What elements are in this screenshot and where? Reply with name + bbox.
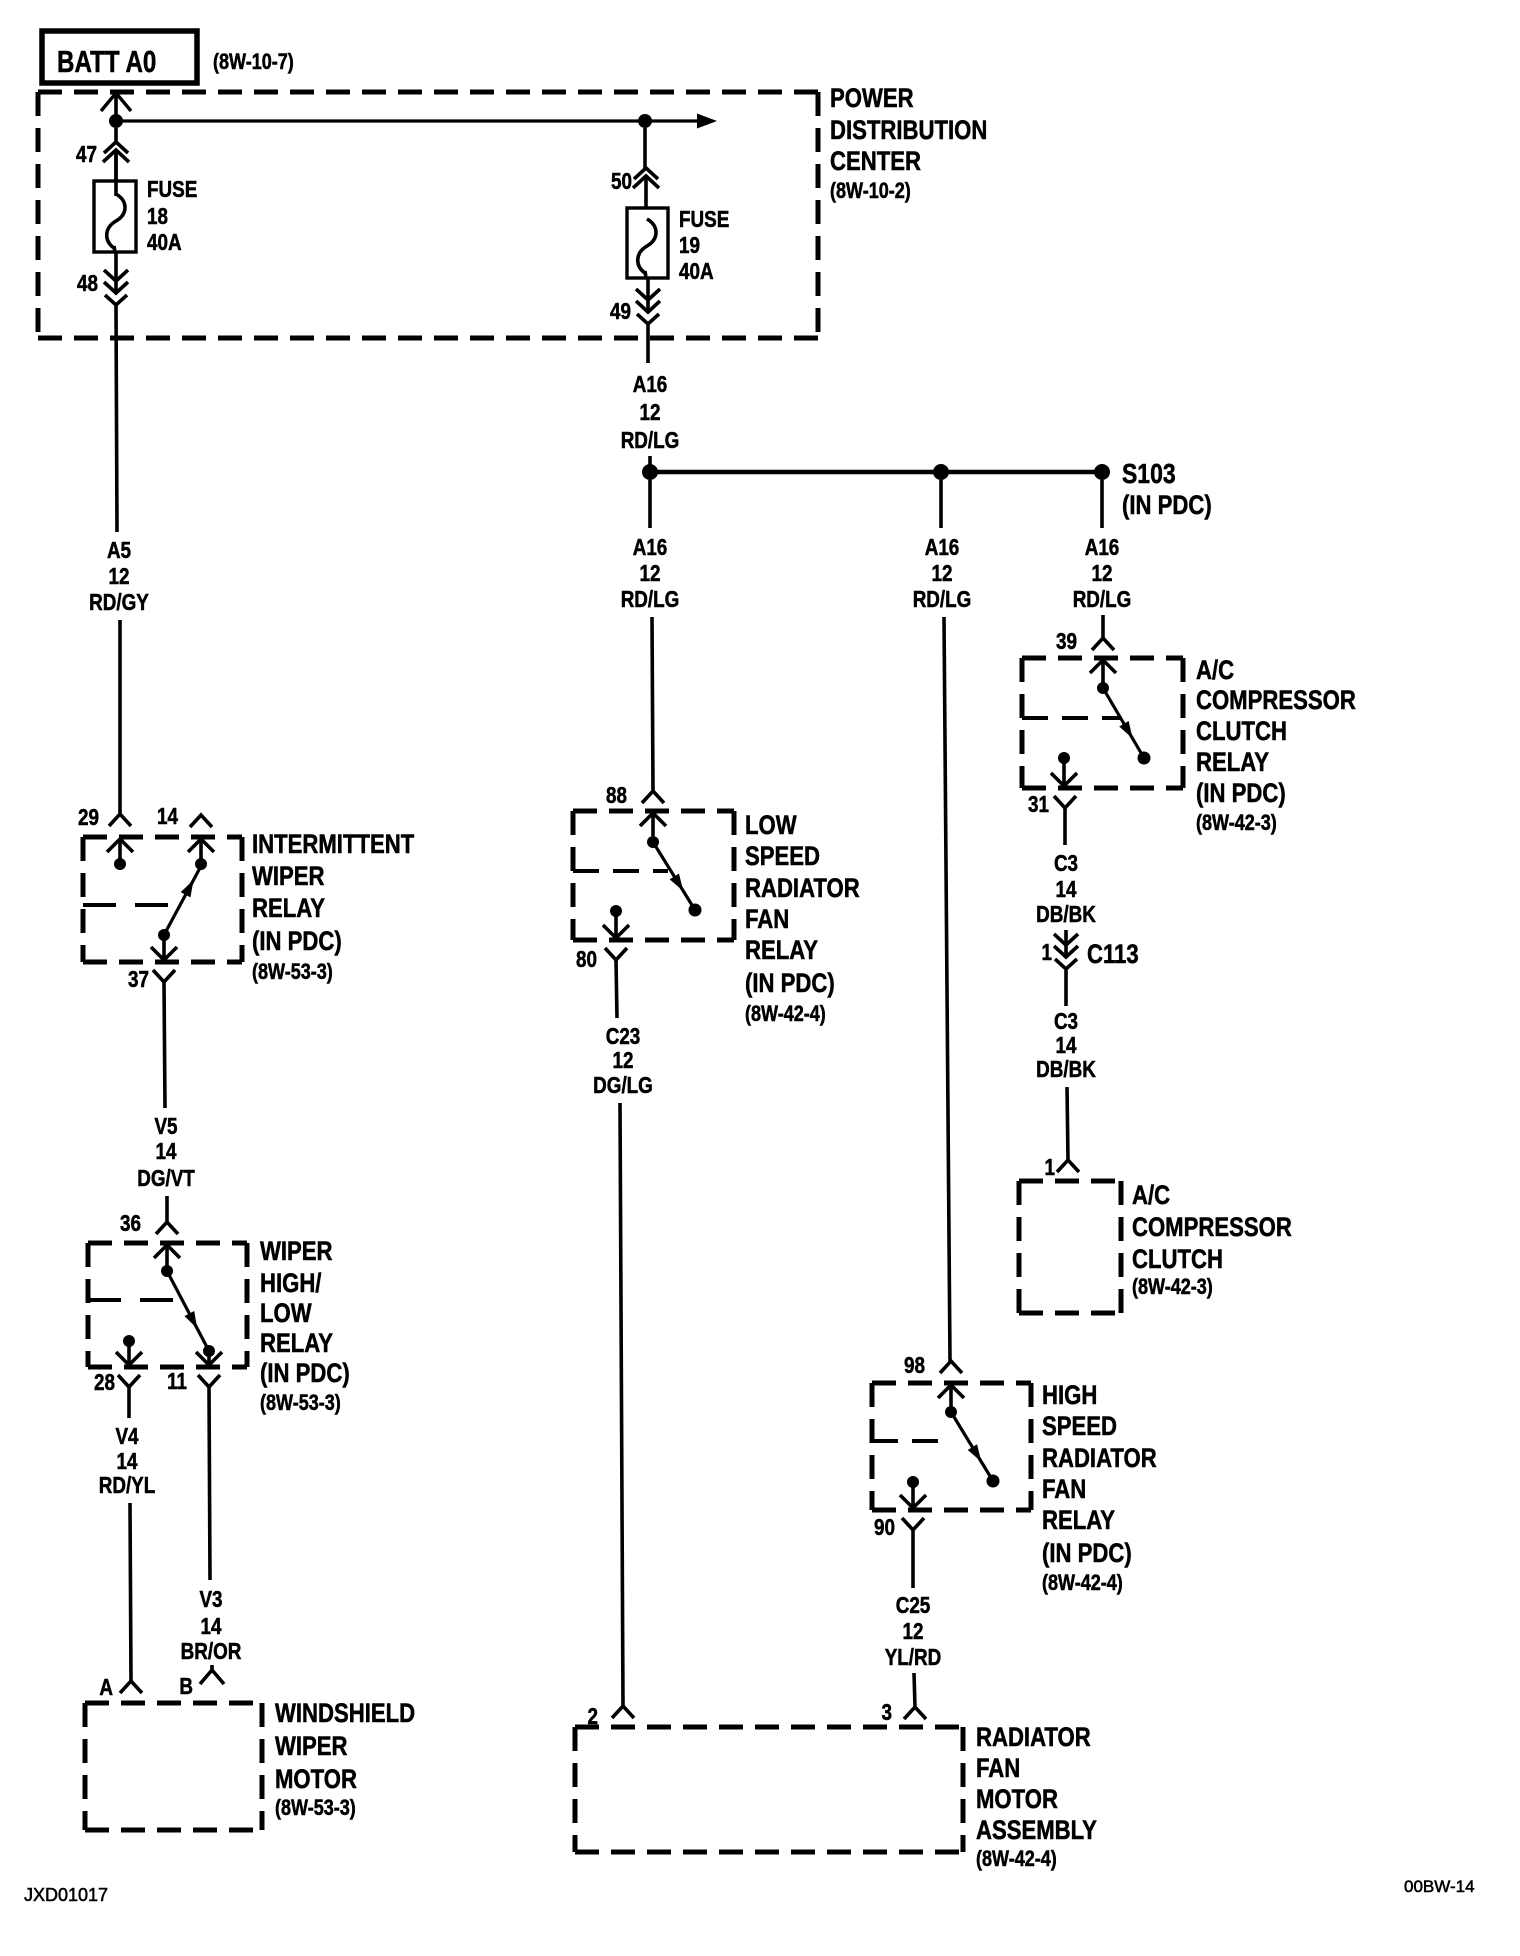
svg-text:RD/LG: RD/LG [621, 587, 680, 612]
junction dot left [109, 114, 123, 128]
bus arrow continuation [645, 119, 700, 122]
splice dot left [642, 464, 658, 480]
relay coil divider dashes [88, 1298, 175, 1302]
low speed radiator fan relay box [573, 809, 734, 814]
svg-text:88: 88 [606, 783, 627, 808]
svg-text:31: 31 [1028, 792, 1049, 817]
radiator fan motor assembly box [575, 1725, 963, 1730]
relay pin 39 contact arrow [1090, 660, 1116, 673]
col2 wire to relay [652, 617, 653, 791]
relay pin 39 fork [1092, 638, 1114, 650]
svg-text:12: 12 [109, 564, 130, 589]
svg-text:WINDSHIELD: WINDSHIELD [275, 1699, 415, 1729]
relay coil divider dashes [573, 869, 668, 873]
a/c compressor clutch box [1019, 1179, 1121, 1184]
motor pin A fork [120, 1681, 142, 1693]
relay pin 14 chevron [190, 815, 212, 827]
wire from junction up into BATT A0 with arrowhead [114, 96, 118, 121]
svg-text:00BW-14: 00BW-14 [1404, 1877, 1475, 1896]
svg-text:CENTER: CENTER [830, 147, 921, 177]
wire C25 upper segment [911, 1530, 915, 1588]
svg-text:49: 49 [610, 299, 631, 324]
wire V4 upper segment [127, 1387, 131, 1418]
relay common contact dot [610, 905, 622, 917]
svg-text:SPEED: SPEED [745, 842, 820, 872]
wire to a/c compressor clutch [1067, 1087, 1068, 1160]
svg-text:40A: 40A [147, 230, 182, 255]
svg-text:19: 19 [679, 233, 700, 258]
svg-text:14: 14 [156, 1139, 177, 1164]
svg-text:RD/LG: RD/LG [1073, 587, 1132, 612]
wire V3 upper segment [209, 1387, 210, 1580]
relay NO contact dot [987, 1475, 1000, 1488]
relay switch arm with arrowhead [653, 842, 695, 910]
svg-text:A16: A16 [925, 535, 960, 560]
svg-text:12: 12 [903, 1619, 924, 1644]
wire A5 upper segment [116, 305, 117, 532]
relay pin 37 fork [153, 970, 175, 982]
svg-text:RADIATOR: RADIATOR [745, 874, 860, 904]
svg-text:A16: A16 [633, 372, 668, 397]
relay common contact dot pin 28 [123, 1335, 135, 1347]
splice dot S103 [1094, 464, 1110, 480]
svg-text:12: 12 [640, 561, 661, 586]
svg-text:WIPER: WIPER [260, 1237, 333, 1267]
svg-text:S103: S103 [1122, 459, 1176, 490]
relay common pin arrow down [1062, 758, 1066, 786]
relay common contact dot [158, 929, 170, 941]
svg-text:14: 14 [201, 1614, 222, 1639]
relay pin 98 fork [940, 1361, 962, 1373]
long wire to radiator fan motor pin 2 [620, 1103, 623, 1706]
relay common contact dot [1058, 752, 1070, 764]
wire V4 lower segment [130, 1503, 131, 1681]
wire to splice, crossing PDC edge [646, 324, 650, 363]
svg-text:V4: V4 [115, 1424, 138, 1449]
relay switch arm with arrowhead [1103, 688, 1144, 758]
svg-text:A: A [99, 1675, 113, 1700]
relay switch arm with arrowhead [951, 1412, 993, 1481]
relay common contact dot [907, 1476, 919, 1488]
svg-text:3: 3 [882, 1700, 892, 1725]
svg-text:C25: C25 [896, 1593, 931, 1618]
intermittent wiper relay box [83, 835, 242, 840]
svg-text:(8W-10-2): (8W-10-2) [830, 179, 911, 203]
svg-text:(8W-42-3): (8W-42-3) [1132, 1275, 1213, 1299]
svg-text:1: 1 [1042, 940, 1053, 965]
relay pin 28 arrow down [127, 1341, 131, 1365]
svg-text:V5: V5 [154, 1114, 177, 1139]
svg-text:RADIATOR: RADIATOR [1042, 1444, 1157, 1474]
relay NO contact dot [689, 904, 702, 917]
svg-text:29: 29 [78, 805, 99, 830]
svg-text:YL/RD: YL/RD [885, 1645, 942, 1670]
svg-text:ASSEMBLY: ASSEMBLY [976, 1816, 1097, 1846]
svg-text:14: 14 [1056, 1033, 1077, 1058]
svg-text:(8W-53-3): (8W-53-3) [260, 1391, 341, 1415]
relay pin 80 fork [605, 948, 627, 960]
svg-text:90: 90 [874, 1515, 895, 1540]
svg-text:DB/BK: DB/BK [1036, 902, 1096, 927]
svg-text:11: 11 [167, 1369, 187, 1394]
svg-text:C3: C3 [1054, 851, 1078, 876]
wiper high/low relay box [88, 1241, 247, 1246]
relay coil divider dashes [872, 1439, 952, 1443]
svg-text:12: 12 [1092, 561, 1113, 586]
svg-text:A16: A16 [1085, 535, 1120, 560]
svg-text:(IN PDC): (IN PDC) [1196, 779, 1286, 809]
fuse 19 40A [627, 208, 668, 278]
svg-text:BATT A0: BATT A0 [57, 44, 156, 79]
svg-text:HIGH: HIGH [1042, 1381, 1097, 1411]
svg-text:MOTOR: MOTOR [976, 1785, 1058, 1815]
svg-text:FUSE: FUSE [147, 177, 197, 202]
svg-text:39: 39 [1056, 629, 1077, 654]
svg-text:47: 47 [76, 142, 97, 167]
svg-text:RD/LG: RD/LG [913, 587, 972, 612]
svg-text:18: 18 [147, 204, 168, 229]
relay NO contact dot pin 11 [203, 1345, 215, 1357]
svg-text:(IN PDC): (IN PDC) [252, 927, 342, 957]
clutch pin 1 fork [1057, 1160, 1079, 1172]
svg-text:(IN PDC): (IN PDC) [745, 969, 835, 999]
svg-text:SPEED: SPEED [1042, 1412, 1117, 1442]
BATT A0 feed terminal box [42, 31, 197, 83]
svg-text:RELAY: RELAY [260, 1329, 333, 1359]
svg-text:14: 14 [157, 804, 178, 829]
svg-text:(IN PDC): (IN PDC) [1122, 491, 1212, 521]
svg-text:LOW: LOW [745, 811, 797, 841]
splice dot middle [933, 464, 949, 480]
svg-text:WIPER: WIPER [252, 862, 325, 892]
relay pin 29 fork [109, 814, 131, 826]
wire to radiator fan motor pin 3 [914, 1673, 915, 1707]
relay pin 90 fork [902, 1518, 924, 1530]
wire below C113 [1064, 969, 1068, 1006]
connector C113 [1064, 930, 1068, 957]
svg-text:RD/GY: RD/GY [89, 590, 149, 615]
relay switch arm with arrowhead [164, 866, 201, 935]
svg-text:DG/LG: DG/LG [593, 1073, 653, 1098]
svg-text:(IN PDC): (IN PDC) [260, 1359, 350, 1389]
svg-text:A/C: A/C [1132, 1181, 1170, 1211]
svg-text:POWER: POWER [830, 84, 914, 114]
relay pin 11 arrow down [207, 1351, 211, 1365]
svg-text:(8W-53-3): (8W-53-3) [252, 960, 333, 984]
svg-text:50: 50 [611, 169, 632, 194]
wire V3 lower segment [210, 1665, 214, 1670]
long col3 wire to relay [944, 617, 950, 1361]
windshield wiper motor box [85, 1701, 262, 1706]
relay pin 31 fork [1054, 796, 1076, 808]
svg-text:RELAY: RELAY [1196, 748, 1269, 778]
connector 50 (PDC cavity) [643, 128, 647, 168]
svg-text:RD/YL: RD/YL [99, 1473, 156, 1498]
relay coil divider dashes [1022, 716, 1120, 720]
relay pin 36 contact arrow [154, 1245, 180, 1258]
relay pin 88 contact arrow [640, 813, 666, 826]
wire V5 upper segment [164, 982, 165, 1108]
svg-text:FUSE: FUSE [679, 207, 729, 232]
col4 wire below splice [1100, 480, 1104, 528]
svg-text:A5: A5 [107, 538, 131, 563]
svg-text:98: 98 [904, 1353, 925, 1378]
connector 49 [646, 278, 650, 312]
relay coil divider dashes [83, 903, 175, 907]
svg-text:HIGH/: HIGH/ [260, 1269, 322, 1299]
svg-text:(8W-42-4): (8W-42-4) [976, 1847, 1057, 1871]
svg-text:C23: C23 [606, 1024, 641, 1049]
a/c compressor clutch relay box [1022, 656, 1183, 661]
svg-text:COMPRESSOR: COMPRESSOR [1196, 686, 1356, 716]
col4 wire to relay [1101, 615, 1105, 638]
svg-text:FAN: FAN [1042, 1475, 1086, 1505]
wire V5 lower segment [165, 1196, 169, 1222]
wire C23 upper segment [616, 960, 617, 1018]
relay pin 11 fork [198, 1375, 220, 1387]
svg-text:14: 14 [1056, 877, 1077, 902]
svg-text:12: 12 [640, 400, 661, 425]
svg-text:CLUTCH: CLUTCH [1196, 717, 1287, 747]
svg-text:WIPER: WIPER [275, 1732, 348, 1762]
motor pin B fork [200, 1670, 224, 1684]
svg-text:B: B [179, 1674, 193, 1699]
motor pin 2 fork [612, 1706, 634, 1718]
fuse 18 40A [94, 181, 136, 252]
junction dot right [638, 114, 652, 128]
relay pin 36 fork [156, 1222, 178, 1234]
svg-text:(8W-53-3): (8W-53-3) [275, 1796, 356, 1820]
horizontal bus wire to fuse 19 branch [116, 119, 645, 122]
svg-text:(8W-42-4): (8W-42-4) [1042, 1571, 1123, 1595]
svg-text:37: 37 [128, 967, 149, 992]
svg-text:MOTOR: MOTOR [275, 1765, 357, 1795]
svg-text:36: 36 [120, 1211, 141, 1236]
svg-text:(8W-42-4): (8W-42-4) [745, 1002, 826, 1026]
svg-text:(8W-10-7): (8W-10-7) [213, 50, 294, 74]
svg-text:COMPRESSOR: COMPRESSOR [1132, 1213, 1292, 1243]
svg-text:14: 14 [117, 1449, 138, 1474]
relay common pin arrow down [911, 1482, 915, 1508]
col2 wire below splice [648, 480, 652, 528]
power distribution center dashed box [38, 90, 818, 95]
svg-text:DG/VT: DG/VT [137, 1166, 195, 1191]
relay common pin arrow down [614, 911, 618, 938]
relay pin 29 contact arrow [107, 839, 133, 852]
wire C3 upper segment [1063, 808, 1067, 845]
svg-text:V3: V3 [199, 1587, 222, 1612]
wire A5 lower segment [118, 620, 122, 814]
svg-text:12: 12 [613, 1048, 634, 1073]
connector 47 (PDC cavity) [114, 128, 118, 142]
svg-text:JXD01017: JXD01017 [24, 1885, 108, 1905]
svg-text:(8W-42-3): (8W-42-3) [1196, 811, 1277, 835]
svg-text:BR/OR: BR/OR [181, 1639, 242, 1664]
svg-text:LOW: LOW [260, 1299, 312, 1329]
svg-text:A/C: A/C [1196, 656, 1234, 686]
svg-text:48: 48 [77, 271, 98, 296]
svg-text:FAN: FAN [976, 1754, 1020, 1784]
relay pin 28 fork [118, 1375, 140, 1387]
svg-text:1: 1 [1045, 1155, 1056, 1180]
svg-text:RELAY: RELAY [252, 894, 325, 924]
svg-text:28: 28 [94, 1370, 115, 1395]
svg-text:RELAY: RELAY [745, 936, 818, 966]
relay common pin arrow down [162, 935, 166, 960]
high speed radiator fan relay box [872, 1381, 1031, 1386]
svg-text:DB/BK: DB/BK [1036, 1057, 1096, 1082]
relay pin 14 contact arrow [188, 839, 214, 852]
svg-text:RELAY: RELAY [1042, 1506, 1115, 1536]
svg-text:C113: C113 [1087, 940, 1139, 970]
relay pin 98 contact arrow [938, 1385, 964, 1398]
svg-text:RADIATOR: RADIATOR [976, 1723, 1091, 1753]
splice S103 bus [650, 470, 1102, 475]
svg-text:FAN: FAN [745, 905, 789, 935]
relay NO contact dot [1138, 752, 1151, 765]
connector 48 [114, 252, 118, 293]
col3 wire below splice [939, 480, 943, 528]
svg-text:12: 12 [932, 561, 953, 586]
svg-text:C3: C3 [1054, 1009, 1078, 1034]
svg-text:CLUTCH: CLUTCH [1132, 1245, 1223, 1275]
svg-text:(IN PDC): (IN PDC) [1042, 1539, 1132, 1569]
motor pin 3 fork [904, 1707, 926, 1719]
svg-text:DISTRIBUTION: DISTRIBUTION [830, 116, 987, 146]
svg-text:INTERMITTENT: INTERMITTENT [252, 830, 414, 860]
svg-text:A16: A16 [633, 535, 668, 560]
svg-text:RD/LG: RD/LG [621, 428, 680, 453]
relay pin 88 fork [642, 791, 664, 803]
svg-text:40A: 40A [679, 259, 714, 284]
svg-text:80: 80 [576, 947, 597, 972]
relay switch arm with arrowhead [167, 1271, 209, 1351]
